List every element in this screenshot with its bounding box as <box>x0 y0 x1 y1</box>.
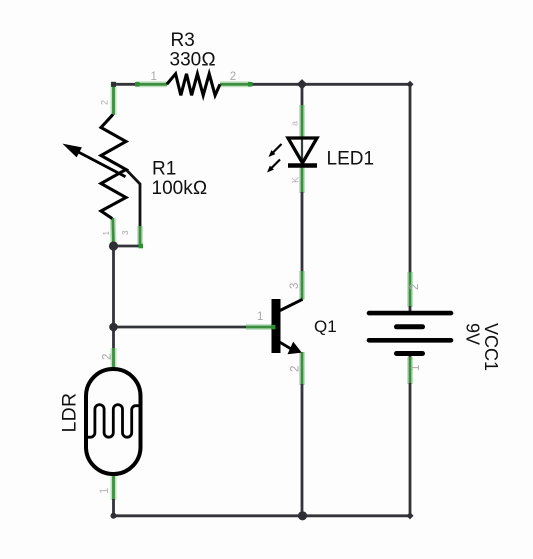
LED1 triangle <box>288 138 317 163</box>
svg-text:100kΩ: 100kΩ <box>152 178 208 199</box>
wire right rail vertical (battery to bottom corner) <box>409 383 412 516</box>
wire left rail (LDR to bottom corner) <box>112 499 115 516</box>
wire node A to top-right corner <box>302 83 410 86</box>
junction base net (round dot) <box>109 323 118 332</box>
resistor R3 <box>167 74 220 96</box>
wire R1 pin1 stub (green) <box>110 218 117 247</box>
wire LDR pin2 stub (green) <box>111 348 117 369</box>
wire top-left horizontal (net to R3 pin1) <box>114 83 138 86</box>
junction R1 pins 1+3 (round dot) <box>109 241 118 250</box>
wire Q1 base pin stub (green) <box>246 324 272 330</box>
bottom-left corner dot <box>111 513 117 519</box>
bottom-right corner dot (diamond) <box>406 512 413 519</box>
R3 pin1 end marker (green tick) <box>135 82 140 87</box>
wire Q1 emitter pin stub (green) <box>299 352 305 385</box>
R3 pin2 end marker (green tick) <box>248 82 253 87</box>
transistor Q1 <box>272 299 303 354</box>
top-left corner dot <box>111 82 116 87</box>
svg-text:R1: R1 <box>152 159 176 180</box>
svg-text:Q1: Q1 <box>314 317 337 336</box>
svg-text:2: 2 <box>230 71 236 83</box>
LED1 internal wire <box>301 138 303 165</box>
svg-text:2: 2 <box>101 354 113 360</box>
LDR meander element <box>86 405 141 438</box>
R1 arrow <box>75 150 126 177</box>
wire R1 pin2 stub (green, left rail top) <box>111 84 117 115</box>
wire VCC1 pin1 stub (green) <box>409 356 412 384</box>
svg-text:1: 1 <box>410 365 422 371</box>
svg-text:VCC1: VCC1 <box>481 323 501 371</box>
Q1 base bar <box>272 299 281 353</box>
node A junction (top, diamond) <box>297 79 307 89</box>
wire R3 pin2 stub (green) <box>220 81 251 87</box>
wire R3 pin1 stub (green) <box>136 81 167 87</box>
wire right rail vertical (top corner to battery) <box>409 84 412 273</box>
wire R3 pin2 to node A <box>250 83 302 86</box>
battery VCC1 <box>369 313 451 353</box>
VCC1 short plate <box>397 324 423 329</box>
svg-text:3: 3 <box>289 283 301 289</box>
wire LDR pin1 stub (green) <box>111 474 117 500</box>
svg-text:2: 2 <box>290 366 302 372</box>
svg-text:2: 2 <box>100 100 110 105</box>
LED LED1 <box>267 138 317 173</box>
wire R1 wiper (pin3) <box>126 170 140 229</box>
svg-text:LDR: LDR <box>59 393 81 433</box>
Q1 base pin end marker (green dot) <box>271 325 276 330</box>
Q1 collector diagonal <box>280 299 303 310</box>
LED1 light arrow 2 <box>271 160 281 170</box>
R1 pin3 end marker (green dot) <box>139 244 144 249</box>
svg-text:3: 3 <box>121 230 130 235</box>
svg-text:330Ω: 330Ω <box>170 50 216 71</box>
wire bottom horizontal <box>114 514 411 517</box>
wire Q1 collector pin stub (green) <box>299 271 305 300</box>
svg-text:K: K <box>291 177 301 183</box>
VCC1 short plate bottom <box>397 351 423 356</box>
wire R1 pin3 stub (green) <box>137 226 143 246</box>
wire Q1 emitter to bottom junction <box>301 384 304 516</box>
potentiometer R1 <box>101 115 126 219</box>
wire VCC1 pin2 stub (green) <box>407 272 413 311</box>
photoresistor LDR <box>86 369 141 474</box>
Q1 emitter arrowhead <box>288 342 302 355</box>
bottom junction node (round dot) <box>298 511 307 520</box>
VCC1 long plate top <box>369 311 451 316</box>
wire LED1 cathode to Q1 collector <box>301 192 304 272</box>
svg-text:a: a <box>290 121 300 126</box>
LED1 light arrow 1 <box>272 144 282 154</box>
wire base net horizontal (junction B to Q1 base) <box>114 326 248 329</box>
top-right corner dot (diamond) <box>406 81 413 88</box>
svg-text:2: 2 <box>409 284 421 290</box>
svg-text:9V: 9V <box>463 323 483 345</box>
wire R1 pin3 to junction <box>114 245 141 248</box>
wire LED1 cathode stub (green) <box>299 165 305 193</box>
svg-text:1: 1 <box>102 231 111 236</box>
svg-text:1: 1 <box>257 311 263 323</box>
VCC1 long plate bottom <box>369 338 451 343</box>
Q1 emitter diagonal <box>280 342 293 350</box>
wire LED1 anode stub (green) <box>301 84 304 138</box>
svg-text:R3: R3 <box>171 30 195 51</box>
LED1 cathode bar <box>288 163 317 167</box>
wire left rail (R1 junction to LDR) <box>112 246 115 350</box>
svg-text:1: 1 <box>99 488 111 494</box>
svg-text:1: 1 <box>151 71 157 83</box>
LDR capsule body <box>86 369 141 474</box>
svg-text:LED1: LED1 <box>327 149 375 170</box>
